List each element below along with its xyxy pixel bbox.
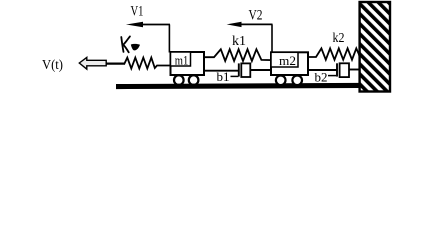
damper b1 cylinder (241, 63, 250, 77)
damper b1 rod right (251, 69, 272, 71)
m1 wheel right (189, 75, 199, 85)
spring k2 (308, 48, 360, 59)
hollow force arrow (79, 57, 106, 69)
damper b2 rod left (308, 69, 337, 71)
velocity arrow V2 (227, 22, 273, 53)
b2 label dash (328, 75, 336, 77)
svg-text:b1: b1 (217, 69, 230, 84)
mass m1 box (171, 52, 205, 75)
handwritten blob after K (131, 44, 140, 51)
wall (360, 2, 390, 92)
svg-text:V(t): V(t) (42, 58, 63, 73)
m2 wheel left (276, 76, 286, 86)
damper b1 piston (238, 63, 240, 76)
m2 label plate (271, 52, 298, 67)
svg-text:m1: m1 (175, 54, 189, 68)
wire from arrow to left spring (107, 62, 125, 64)
svg-text:m2: m2 (279, 53, 296, 68)
b1 label dash (231, 75, 239, 77)
velocity arrow V1 (126, 22, 170, 53)
mass m2 box (271, 52, 308, 75)
damper b1 rod left (204, 70, 239, 72)
spring k1 (204, 49, 272, 61)
handwritten K annotation (121, 36, 130, 52)
svg-text:V2: V2 (249, 7, 263, 23)
left spring K (124, 58, 171, 69)
svg-text:k2: k2 (333, 31, 345, 46)
m2 wheel right (292, 76, 302, 86)
ground (116, 83, 360, 89)
damper b2 cylinder (340, 63, 349, 77)
svg-text:b2: b2 (315, 70, 328, 85)
damper b2 piston (336, 63, 338, 76)
svg-text:V1: V1 (131, 3, 144, 19)
m1 wheel left (174, 75, 184, 85)
svg-text:k1: k1 (232, 34, 246, 49)
damper b2 rod right (349, 69, 360, 71)
m1 label plate (171, 52, 191, 66)
